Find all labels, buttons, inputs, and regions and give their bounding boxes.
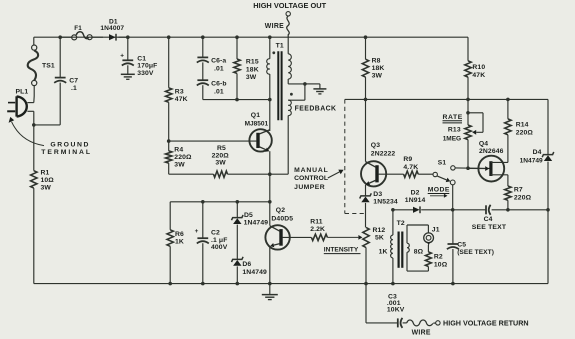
svg-text:R1: R1 bbox=[41, 170, 50, 177]
thermal switch TS1 bbox=[28, 45, 55, 86]
svg-text:1K: 1K bbox=[175, 238, 184, 245]
svg-text:47K: 47K bbox=[175, 96, 188, 103]
svg-text:.01: .01 bbox=[214, 66, 224, 73]
svg-text:R7: R7 bbox=[514, 186, 523, 193]
wire plug neutral prong bbox=[27, 111, 33, 125]
transformer T2 primary winding bbox=[379, 210, 393, 284]
svg-text:3W: 3W bbox=[41, 185, 52, 192]
wire neutral run bbox=[34, 124, 60, 126]
svg-text:R4: R4 bbox=[174, 146, 183, 153]
svg-text:R14: R14 bbox=[516, 121, 529, 128]
svg-text:.1: .1 bbox=[71, 85, 77, 92]
svg-text:10KV: 10KV bbox=[387, 306, 405, 313]
node R8 rail2 bbox=[364, 98, 368, 102]
node D5 top bbox=[236, 200, 240, 204]
node R12 gnd bbox=[364, 282, 368, 286]
resistor R7 220ohm bbox=[505, 175, 532, 210]
node right corner bbox=[546, 208, 550, 212]
svg-text:C5: C5 bbox=[457, 241, 466, 248]
svg-text:WIRE: WIRE bbox=[412, 330, 431, 337]
zener D3 1N5234 bbox=[360, 191, 398, 228]
svg-text:FEEDBACK: FEEDBACK bbox=[295, 106, 337, 113]
svg-text:3W: 3W bbox=[246, 74, 257, 81]
svg-text:220Ω: 220Ω bbox=[514, 194, 532, 201]
node C6 top bbox=[201, 35, 205, 39]
svg-text:R9: R9 bbox=[403, 156, 412, 163]
svg-text:WIRE: WIRE bbox=[265, 23, 284, 30]
node Q2 emitter gnd bbox=[268, 282, 272, 286]
svg-text:T1: T1 bbox=[276, 42, 284, 49]
svg-text:1N4007: 1N4007 bbox=[100, 25, 124, 32]
node C2 top bbox=[201, 200, 205, 204]
wire bottom ground rail bbox=[34, 283, 548, 285]
capacitor C6-b bbox=[197, 62, 227, 99]
node C2 gnd bbox=[201, 282, 205, 286]
svg-text:S1: S1 bbox=[438, 159, 447, 166]
plug PL1 bbox=[7, 89, 28, 117]
resistor R6 1K bbox=[167, 202, 184, 284]
svg-text:F1: F1 bbox=[74, 25, 82, 32]
node T2 top bbox=[391, 208, 395, 212]
wire Q1 emitter to Q2 bbox=[269, 174, 271, 202]
resistor R9 4.7K bbox=[403, 156, 433, 177]
ground main bbox=[262, 284, 278, 300]
svg-text:MODE: MODE bbox=[428, 187, 450, 194]
transformer T1 core bbox=[278, 51, 281, 120]
node R3/R4/base bbox=[167, 139, 171, 143]
wire second supply rail bbox=[345, 98, 548, 100]
label manual control jumper bbox=[294, 167, 329, 191]
wire plug hot prong bbox=[27, 102, 33, 104]
svg-text:.01: .01 bbox=[214, 88, 224, 95]
svg-text:Q4: Q4 bbox=[479, 140, 488, 147]
svg-text:TERMINAL: TERMINAL bbox=[41, 149, 92, 156]
T1 feedback phase dot bbox=[290, 93, 293, 96]
arrow to jumper bbox=[328, 170, 344, 178]
transformer T2 secondary winding bbox=[407, 225, 424, 271]
svg-text:3W: 3W bbox=[372, 73, 383, 80]
zener D5 1N4749 bbox=[232, 202, 269, 260]
svg-text:4.7K: 4.7K bbox=[403, 164, 418, 171]
wire regulated node bbox=[170, 201, 270, 203]
label T1 bbox=[276, 42, 284, 49]
wire TS1 to plug bbox=[33, 86, 35, 103]
transformer T2 core bbox=[399, 232, 403, 268]
svg-text:47K: 47K bbox=[472, 72, 485, 79]
svg-text:C6-b: C6-b bbox=[211, 80, 227, 87]
wire R13 wiper loop bbox=[468, 113, 483, 135]
svg-text:HIGH VOLTAGE RETURN: HIGH VOLTAGE RETURN bbox=[443, 319, 529, 328]
resistor R8 18K bbox=[362, 37, 384, 99]
svg-text:3W: 3W bbox=[215, 160, 226, 167]
svg-text:JUMPER: JUMPER bbox=[294, 184, 325, 191]
wire to T1 ground bbox=[305, 84, 320, 89]
node snubber/R15 bbox=[235, 98, 239, 102]
diode D2 1N914 bbox=[393, 190, 453, 214]
svg-text:D4: D4 bbox=[533, 149, 542, 156]
svg-text:R2: R2 bbox=[434, 253, 443, 260]
svg-text:D40D5: D40D5 bbox=[271, 216, 293, 223]
wire S1 to timer bbox=[455, 167, 490, 170]
svg-text:R5: R5 bbox=[217, 145, 226, 152]
svg-text:18K: 18K bbox=[372, 65, 385, 72]
transistor Q3 2N2222 bbox=[361, 99, 395, 195]
node snubber/collector bbox=[268, 98, 272, 102]
transformer T1 secondary winding bbox=[288, 37, 305, 84]
svg-text:SEE TEXT: SEE TEXT bbox=[472, 224, 507, 231]
diode D1 1N4007 bbox=[100, 18, 127, 40]
wire Q2 base bbox=[282, 236, 311, 238]
svg-text:Q1: Q1 bbox=[251, 112, 260, 119]
potentiometer R12 5K bbox=[363, 227, 386, 283]
capacitor C4 bbox=[472, 205, 507, 231]
transistor Q1 MJ8501 bbox=[245, 112, 272, 174]
svg-text:C1: C1 bbox=[137, 55, 146, 62]
svg-text:GROUND: GROUND bbox=[50, 142, 90, 149]
node T1 secondary/feedback junction bbox=[303, 82, 307, 86]
svg-text:MANUAL: MANUAL bbox=[294, 167, 329, 174]
capacitor C2 bbox=[195, 202, 228, 284]
capacitor C3 .001 10KV bbox=[366, 284, 407, 328]
wire R11 to R12 wiper bbox=[327, 235, 362, 240]
svg-text:INTENSITY: INTENSITY bbox=[324, 247, 359, 254]
zener D6 1N4749 bbox=[232, 257, 268, 284]
node R15 top bbox=[235, 35, 239, 39]
resistor R14 220ohm bbox=[505, 99, 534, 162]
svg-text:18K: 18K bbox=[246, 66, 259, 73]
svg-text:D2: D2 bbox=[411, 190, 420, 197]
wire pulse node bbox=[453, 209, 548, 211]
wire S1 pole down bbox=[452, 185, 454, 210]
node R13 wiper tie bbox=[466, 111, 470, 115]
wire Q3 base to R9 bbox=[378, 173, 403, 175]
wire feedback return bbox=[270, 116, 288, 175]
transistor Q4 2N2646 (UJT) bbox=[468, 140, 508, 181]
wire Q1 base bbox=[169, 140, 257, 142]
wire T2 secondary to J1 bbox=[407, 225, 428, 233]
svg-text:R13: R13 bbox=[448, 127, 461, 134]
svg-text:J1: J1 bbox=[432, 227, 440, 234]
svg-text:10Ω: 10Ω bbox=[41, 177, 55, 184]
capacitor C7 bbox=[54, 37, 78, 125]
svg-text:C7: C7 bbox=[69, 78, 78, 85]
svg-text:R10: R10 bbox=[472, 64, 485, 71]
resistor R15 18K bbox=[234, 37, 259, 99]
T1 primary phase dot bbox=[272, 51, 275, 54]
capacitor C6-a bbox=[197, 37, 227, 72]
fuse F1 bbox=[60, 25, 103, 40]
svg-text:3W: 3W bbox=[174, 161, 185, 168]
node R8 top bbox=[364, 35, 368, 39]
label ground terminal bbox=[41, 142, 92, 157]
switch S1 bbox=[433, 159, 455, 184]
svg-text:C6-a: C6-a bbox=[211, 58, 226, 65]
svg-text:PL1: PL1 bbox=[16, 89, 29, 96]
node T2 gnd bbox=[391, 282, 395, 286]
svg-text:.1 μF: .1 μF bbox=[211, 237, 227, 244]
leader arrow to ground terminal bbox=[9, 117, 44, 146]
label rate bbox=[443, 114, 463, 123]
svg-text:R15: R15 bbox=[246, 59, 259, 66]
svg-text:D5: D5 bbox=[244, 212, 253, 219]
svg-text:HIGH VOLTAGE OUT: HIGH VOLTAGE OUT bbox=[253, 1, 326, 10]
high voltage out terminal bbox=[253, 1, 326, 37]
transistor Q2 D40D5 bbox=[265, 202, 293, 284]
svg-text:RATE: RATE bbox=[443, 114, 463, 121]
resistor R2 10ohm bbox=[407, 245, 448, 271]
node regulated/Q1 bbox=[268, 200, 272, 204]
ground T1 secondary bbox=[313, 89, 326, 94]
node R10 rail2 bbox=[466, 98, 470, 102]
svg-text:220Ω: 220Ω bbox=[516, 130, 534, 137]
wire top rail right drop bbox=[467, 37, 469, 61]
resistor R5 220ohm bbox=[169, 145, 270, 178]
node R6 gnd bbox=[168, 282, 172, 286]
svg-text:+: + bbox=[195, 228, 199, 235]
svg-text:+: + bbox=[120, 53, 124, 60]
resistor R11 2.2K bbox=[310, 218, 327, 240]
svg-text:CONTROL: CONTROL bbox=[294, 175, 328, 182]
svg-text:1N4749: 1N4749 bbox=[242, 269, 267, 276]
svg-text:2.2K: 2.2K bbox=[310, 226, 325, 233]
svg-text:R8: R8 bbox=[372, 58, 381, 65]
resistor R10 47K bbox=[465, 61, 486, 100]
capacitor C5 bbox=[447, 210, 494, 284]
high voltage return terminal bbox=[407, 319, 529, 337]
node plug/C7 junction bbox=[32, 123, 36, 127]
svg-text:T2: T2 bbox=[397, 220, 405, 227]
svg-text:8Ω: 8Ω bbox=[414, 249, 424, 256]
label T2 bbox=[397, 220, 405, 227]
svg-text:330V: 330V bbox=[137, 70, 154, 77]
svg-text:2N2222: 2N2222 bbox=[371, 150, 396, 157]
node C5 gnd bbox=[451, 282, 455, 286]
node D2/S1/C5 bbox=[451, 208, 455, 212]
svg-text:Q2: Q2 bbox=[276, 207, 285, 214]
svg-text:1N5234: 1N5234 bbox=[373, 199, 398, 206]
svg-text:Q3: Q3 bbox=[371, 142, 380, 149]
resistor R1 bbox=[31, 125, 55, 284]
svg-text:1N914: 1N914 bbox=[405, 197, 426, 204]
svg-text:220Ω: 220Ω bbox=[174, 154, 192, 161]
wire top supply rail bbox=[34, 36, 468, 38]
resistor R3 47K bbox=[166, 37, 188, 141]
svg-text:D3: D3 bbox=[373, 191, 382, 198]
svg-text:1N4749: 1N4749 bbox=[244, 219, 269, 226]
svg-text:1MEG: 1MEG bbox=[443, 135, 461, 142]
node C7 top bbox=[58, 35, 62, 39]
svg-text:(SEE TEXT): (SEE TEXT) bbox=[457, 249, 494, 256]
svg-text:1N4749: 1N4749 bbox=[520, 157, 543, 164]
transformer T1 feedback winding bbox=[288, 84, 336, 116]
svg-text:TS1: TS1 bbox=[42, 62, 55, 69]
capacitor C1 170uF bbox=[120, 37, 157, 77]
svg-text:D6: D6 bbox=[242, 261, 251, 268]
node T1 primary top bbox=[268, 35, 272, 39]
wire left AC column (top) bbox=[33, 37, 35, 45]
node D6 gnd bbox=[236, 282, 240, 286]
svg-text:220Ω: 220Ω bbox=[212, 152, 230, 159]
svg-text:C2: C2 bbox=[211, 230, 220, 237]
jack J1 bbox=[424, 227, 440, 246]
svg-text:C4: C4 bbox=[484, 216, 493, 223]
wire snubber bottom bbox=[203, 99, 270, 101]
node R7 bottom bbox=[506, 208, 510, 212]
transformer T1 primary winding bbox=[267, 37, 270, 129]
svg-text:R3: R3 bbox=[175, 89, 184, 96]
ground C1 bbox=[121, 74, 135, 79]
svg-text:1K: 1K bbox=[379, 249, 388, 256]
svg-text:R11: R11 bbox=[310, 218, 323, 225]
dashed manual jumper bbox=[345, 99, 364, 213]
svg-text:170μF: 170μF bbox=[137, 63, 157, 70]
node emitter/R5/feedback bbox=[268, 172, 272, 176]
svg-text:5K: 5K bbox=[375, 235, 384, 242]
svg-text:10Ω: 10Ω bbox=[434, 261, 448, 268]
wire right edge down bbox=[547, 210, 549, 284]
label intensity bbox=[324, 247, 361, 254]
node R14 rail2 bbox=[506, 98, 510, 102]
svg-text:2N2646: 2N2646 bbox=[479, 148, 504, 155]
node C1 top bbox=[126, 35, 130, 39]
svg-text:R12: R12 bbox=[373, 227, 386, 234]
potentiometer R13 1MEG bbox=[443, 99, 472, 168]
node R13 bottom bbox=[466, 166, 470, 170]
node R3 top bbox=[167, 35, 171, 39]
svg-text:R6: R6 bbox=[175, 231, 184, 238]
svg-text:400V: 400V bbox=[211, 244, 228, 251]
svg-text:MJ8501: MJ8501 bbox=[245, 120, 269, 127]
zener D4 1N4749 bbox=[520, 99, 554, 209]
label mode bbox=[428, 187, 450, 198]
resistor R4 220ohm bbox=[166, 141, 193, 174]
